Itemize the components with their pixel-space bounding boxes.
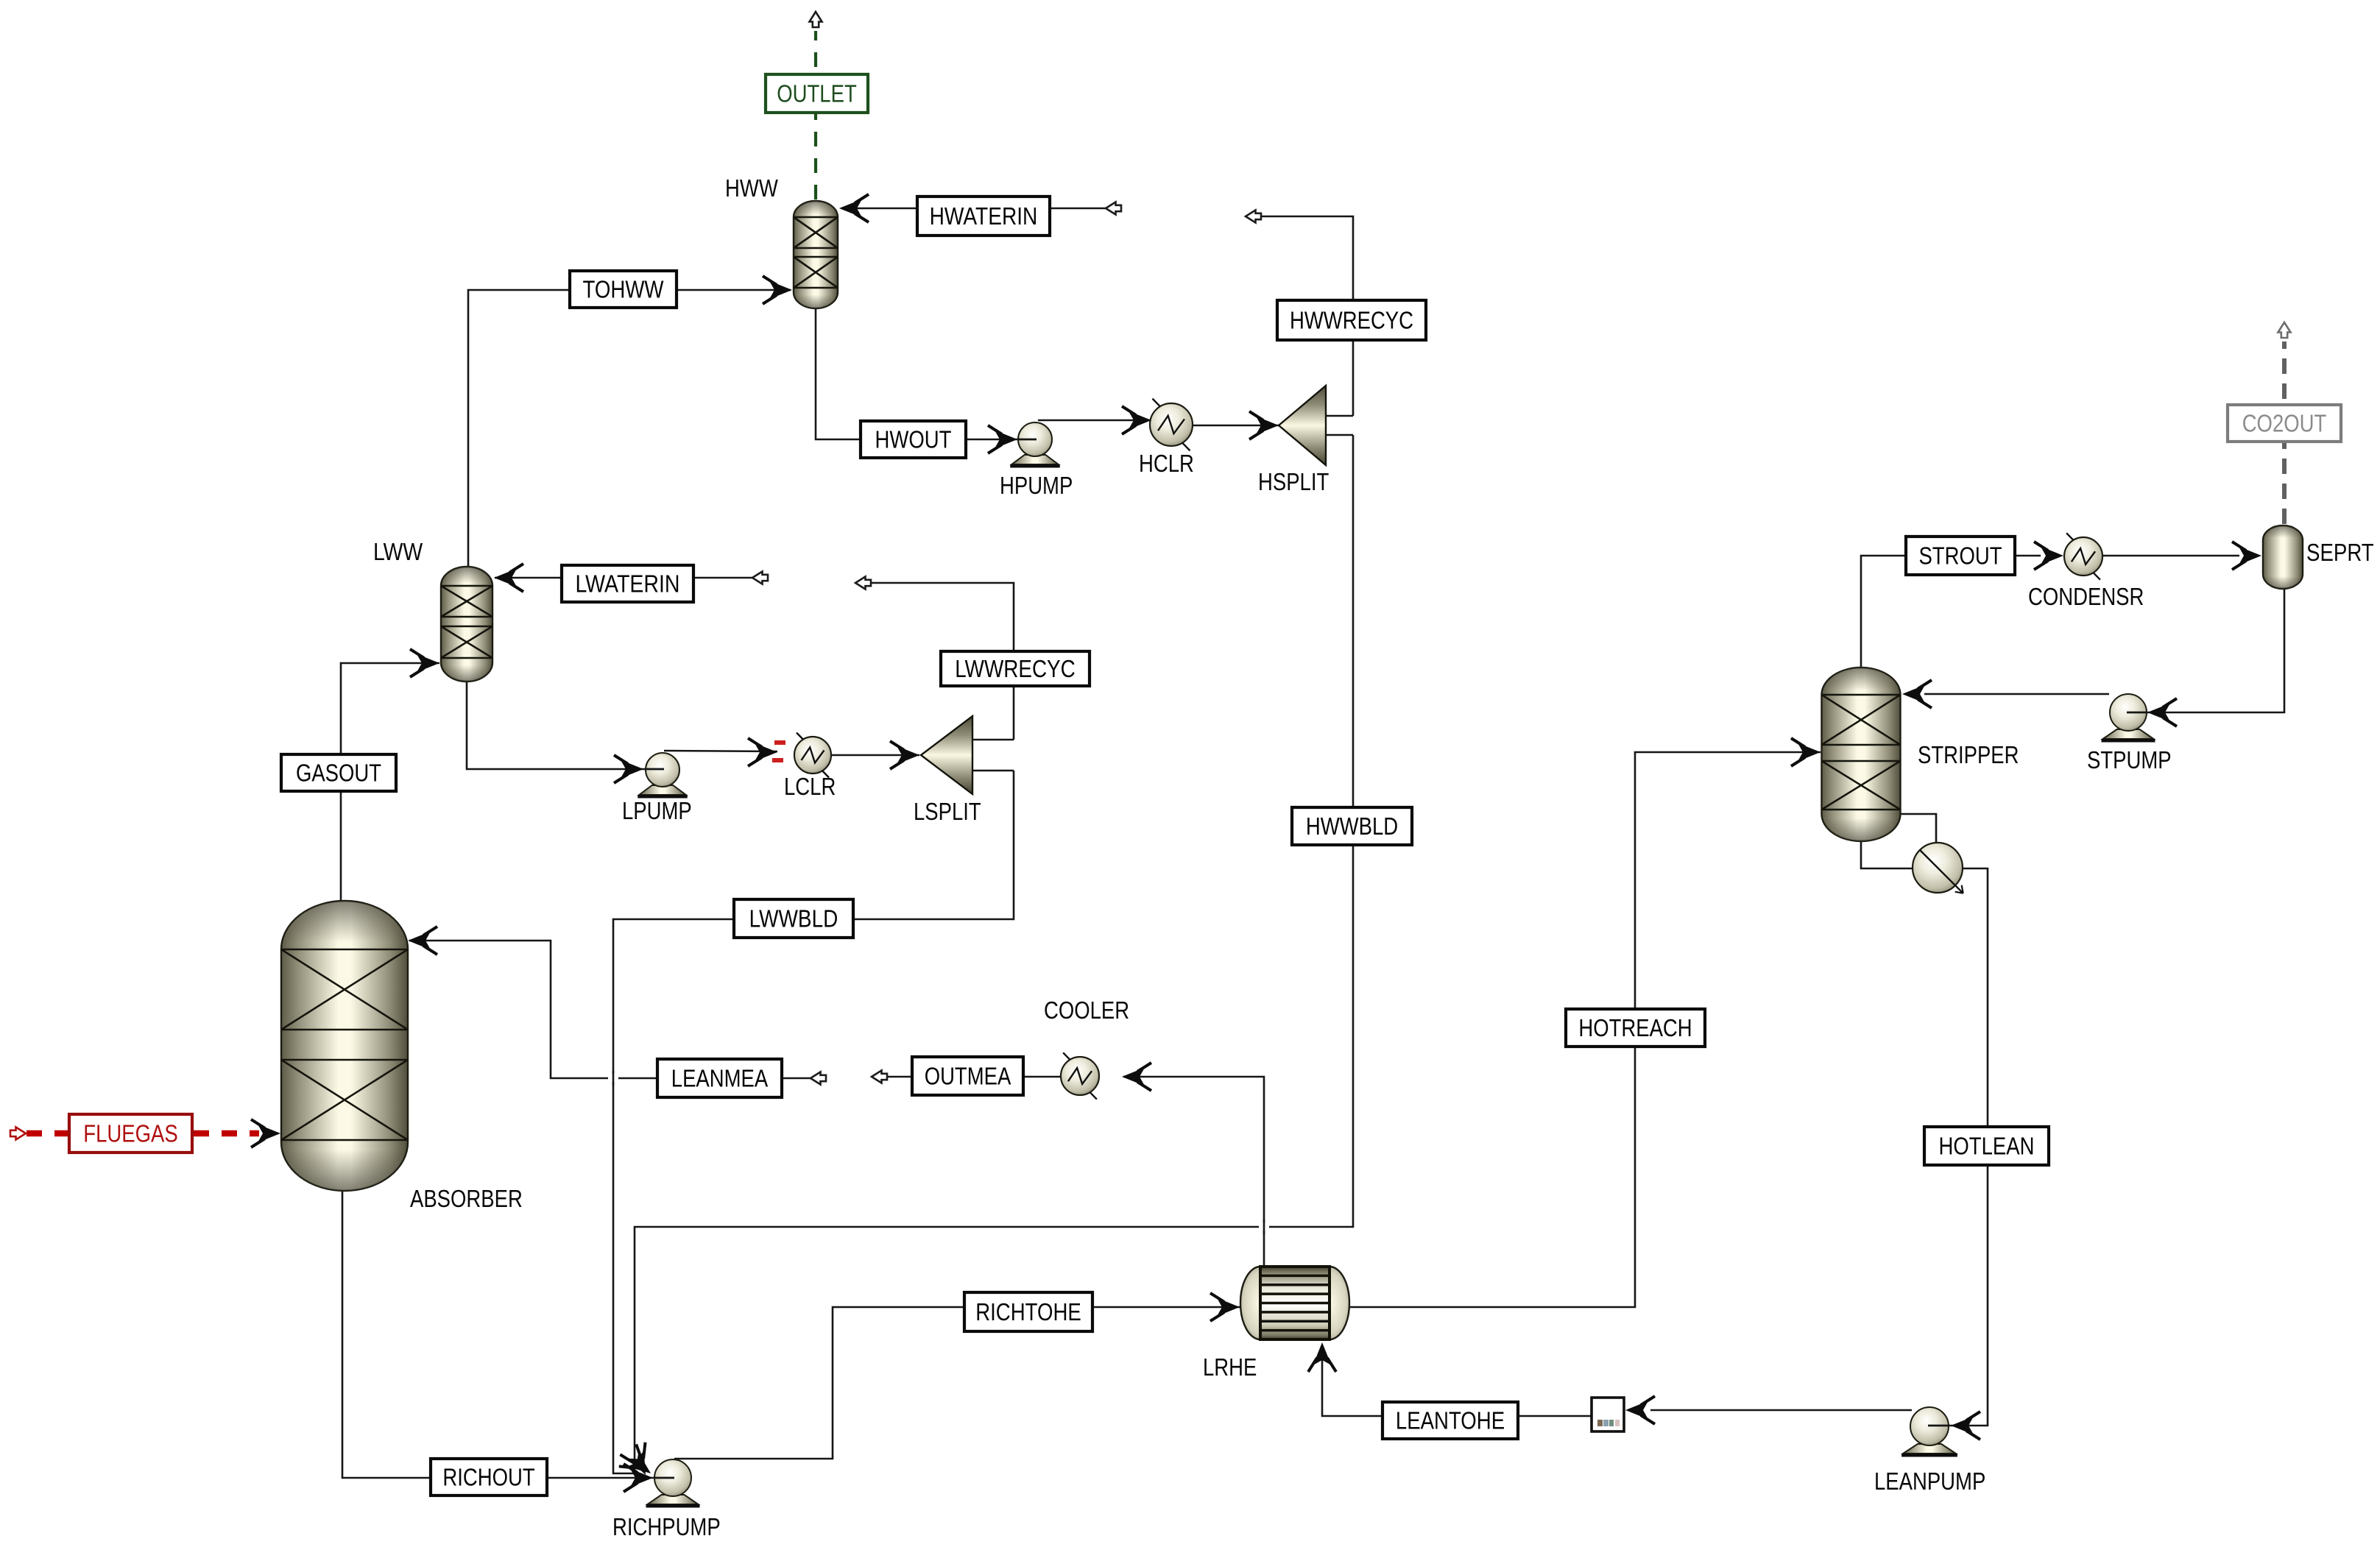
svg-text:HCLR: HCLR: [1139, 450, 1194, 477]
svg-text:STRIPPER: STRIPPER: [1918, 741, 2019, 768]
svg-text:STROUT: STROUT: [1918, 542, 2002, 570]
svg-text:LRHE: LRHE: [1203, 1353, 1257, 1381]
svg-text:FLUEGAS: FLUEGAS: [83, 1120, 177, 1147]
svg-text:LSPLIT: LSPLIT: [914, 798, 981, 825]
svg-text:OUTMEA: OUTMEA: [925, 1063, 1011, 1090]
svg-text:LWWRECYC: LWWRECYC: [955, 655, 1076, 682]
svg-text:LPUMP: LPUMP: [622, 797, 692, 824]
svg-text:RICHOUT: RICHOUT: [442, 1464, 534, 1491]
svg-text:HWW: HWW: [725, 174, 778, 202]
svg-text:HWATERIN: HWATERIN: [930, 202, 1038, 230]
svg-text:LWW: LWW: [373, 538, 423, 565]
svg-text:STPUMP: STPUMP: [2087, 746, 2172, 773]
svg-text:SEPRT: SEPRT: [2306, 539, 2374, 566]
svg-text:HSPLIT: HSPLIT: [1258, 468, 1329, 495]
svg-text:GASOUT: GASOUT: [296, 760, 381, 787]
svg-text:HWWBLD: HWWBLD: [1306, 813, 1398, 840]
svg-text:LWATERIN: LWATERIN: [575, 570, 679, 598]
svg-text:HWOUT: HWOUT: [875, 426, 952, 453]
svg-text:LWWBLD: LWWBLD: [749, 905, 838, 932]
svg-text:HOTREACH: HOTREACH: [1578, 1014, 1692, 1041]
svg-text:LEANPUMP: LEANPUMP: [1874, 1468, 1985, 1495]
svg-text:TOHWW: TOHWW: [583, 276, 665, 303]
svg-text:HWWRECYC: HWWRECYC: [1290, 307, 1413, 334]
svg-text:RICHTOHE: RICHTOHE: [975, 1298, 1081, 1325]
svg-text:RICHPUMP: RICHPUMP: [612, 1513, 721, 1540]
svg-text:HOTLEAN: HOTLEAN: [1939, 1133, 2035, 1160]
svg-text:OUTLET: OUTLET: [777, 80, 857, 107]
svg-text:HPUMP: HPUMP: [1000, 472, 1073, 499]
svg-text:LEANTOHE: LEANTOHE: [1396, 1407, 1505, 1434]
svg-text:CONDENSR: CONDENSR: [2028, 583, 2144, 610]
svg-text:COOLER: COOLER: [1044, 996, 1129, 1024]
svg-text:LEANMEA: LEANMEA: [671, 1065, 768, 1092]
svg-text:CO2OUT: CO2OUT: [2242, 410, 2327, 437]
svg-text:LCLR: LCLR: [784, 773, 836, 800]
svg-text:ABSORBER: ABSORBER: [410, 1185, 523, 1212]
